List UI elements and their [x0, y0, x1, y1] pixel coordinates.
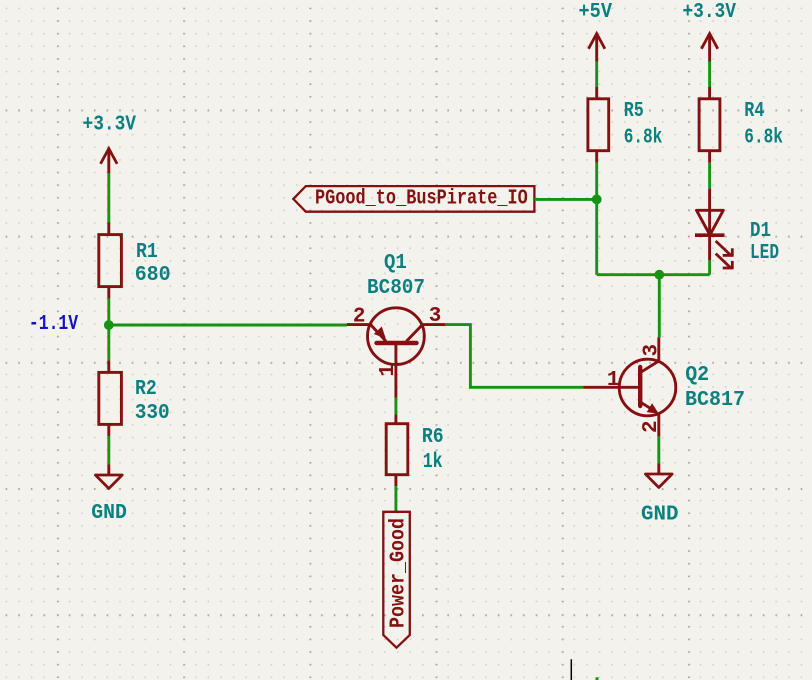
wire Q1 collector to corner: [445, 325, 584, 388]
resistor R4: [699, 87, 720, 163]
power symbol +3.3V (right): [682, 1, 736, 62]
wire junction to Q1 base branch (horizontal): [109, 324, 347, 327]
svg-text:R1: R1: [136, 241, 158, 264]
wire label to junction: [534, 198, 596, 201]
wire corner to LED cathode column (horizontal): [597, 273, 710, 276]
ground symbol (left): [95, 465, 122, 489]
resistor R1: [99, 223, 122, 299]
svg-text:R2: R2: [135, 378, 157, 401]
svg-text:1: 1: [607, 369, 620, 392]
power symbol +3.3V (left): [83, 113, 137, 173]
LED D1: [695, 189, 734, 268]
svg-text:6.8k: 6.8k: [744, 127, 783, 150]
wire Q1 base to R6: [394, 398, 397, 415]
svg-text:-1.1V: -1.1V: [29, 313, 79, 336]
svg-text:+3.3V: +3.3V: [83, 113, 137, 136]
resistor R2: [99, 360, 122, 436]
svg-text:3: 3: [429, 305, 442, 328]
wire R4 to D1: [708, 163, 711, 189]
transistor Q2 BC817 (NPN): [584, 337, 676, 437]
wire +5V to R5: [595, 61, 598, 87]
junction at label/R5: [592, 195, 602, 205]
resistor R6: [386, 415, 408, 487]
transistor Q1 BC807 (PNP): [347, 308, 445, 398]
svg-text:GND: GND: [91, 502, 127, 525]
svg-text:1: 1: [377, 364, 400, 377]
wire R2 to GND: [107, 436, 110, 464]
svg-text:R4: R4: [744, 100, 764, 123]
svg-text:R6: R6: [422, 426, 444, 449]
ground symbol (right): [645, 464, 672, 488]
wire junction to R2: [107, 325, 110, 360]
resistor R5: [588, 87, 609, 163]
wire Q2 emitter to GND: [657, 437, 660, 464]
svg-text:D1: D1: [750, 220, 771, 243]
svg-text:BC807: BC807: [367, 277, 425, 300]
svg-text:Q2: Q2: [685, 364, 709, 387]
junction node -1.1V: [104, 320, 114, 330]
svg-text:3: 3: [641, 344, 664, 357]
svg-text:6.8k: 6.8k: [624, 127, 663, 150]
svg-text:LED: LED: [750, 242, 779, 265]
svg-text:330: 330: [135, 402, 170, 425]
wire R5 down through junction to corner, then to LED column: [595, 163, 598, 275]
hierarchical label Power_Good: [383, 512, 410, 648]
svg-text:BC817: BC817: [685, 389, 745, 412]
svg-text:PGood_to_BusPirate_IO: PGood_to_BusPirate_IO: [315, 188, 528, 211]
wire junction down to Q2 collector: [658, 275, 661, 338]
svg-text:680: 680: [135, 264, 171, 287]
global label PGood_to_BusPirate_IO: [293, 186, 534, 212]
wire R6 to Power_Good label: [394, 486, 397, 512]
wire stub at bottom edge: [596, 677, 599, 680]
svg-text:1k: 1k: [423, 451, 443, 474]
wire R1 to junction: [107, 299, 110, 326]
svg-text:R5: R5: [624, 100, 644, 123]
svg-text:Q1: Q1: [384, 252, 407, 275]
wire +3.3V to R1: [107, 173, 110, 224]
svg-text:+5V: +5V: [579, 1, 613, 24]
editor cursor: [570, 659, 572, 680]
wire +3.3V to R4: [708, 61, 711, 87]
svg-text:GND: GND: [641, 504, 679, 527]
svg-text:2: 2: [640, 420, 663, 433]
svg-text:+3.3V: +3.3V: [682, 1, 736, 24]
junction at Q2 collector branch: [654, 270, 664, 280]
power symbol +5V: [579, 1, 613, 62]
wire D1 to horizontal wire: [708, 260, 711, 275]
svg-text:Power_Good: Power_Good: [388, 518, 411, 628]
svg-text:2: 2: [353, 305, 366, 328]
